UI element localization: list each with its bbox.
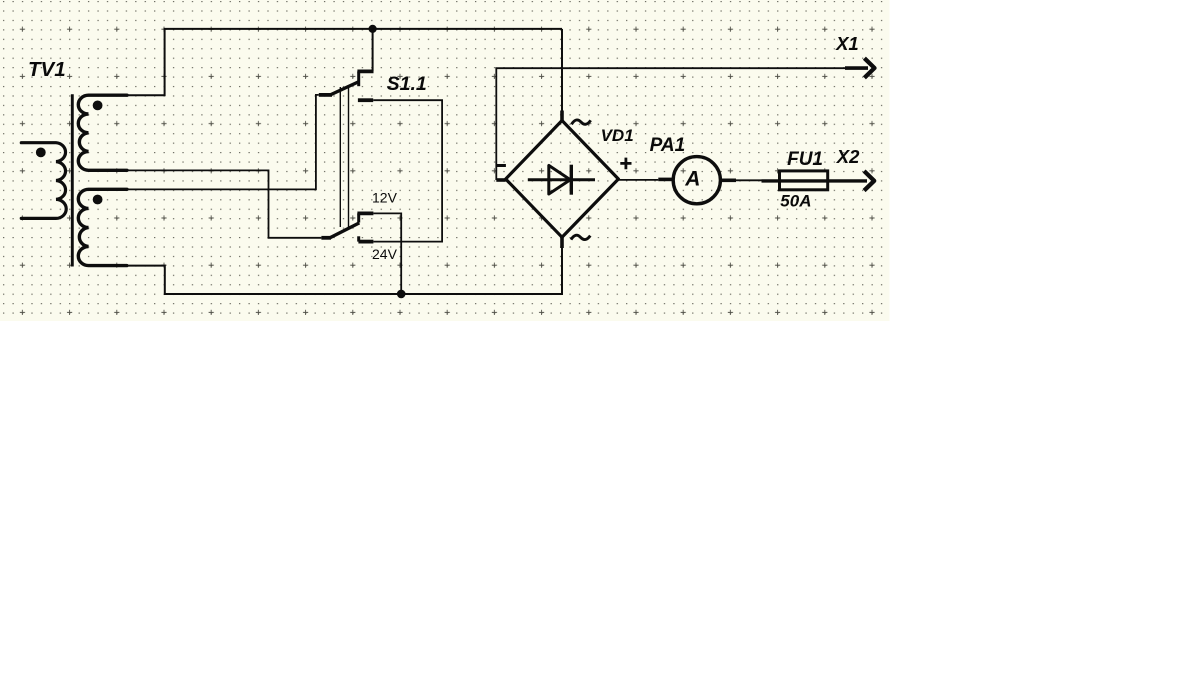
transformer TV1 core bbox=[71, 94, 74, 266]
TV1 secondary 1 polarity dot bbox=[93, 101, 103, 111]
switch S1.1 upper throw contact stub bbox=[357, 70, 373, 74]
ammeter left thick stub bbox=[658, 178, 673, 182]
switch S1.1 upper second contact stub bbox=[358, 98, 373, 102]
TV1 secondary winding 2 bbox=[78, 189, 127, 265]
wire: secondary1 bottom to lower pivot bbox=[127, 170, 321, 237]
svg-text:X2: X2 bbox=[836, 146, 860, 167]
wire: secondary1 top to top bus to bridge top bbox=[127, 29, 562, 95]
VD1 plus sign bbox=[620, 158, 631, 170]
switch S1.1 mechanical linkage lines bbox=[340, 87, 348, 227]
switch S1.1 lower bottom contact tick bbox=[357, 236, 360, 241]
wire thick stub at bridge bottom bbox=[560, 237, 564, 248]
wire: bridge top lead bbox=[561, 29, 563, 121]
svg-text:PA1: PA1 bbox=[650, 135, 686, 156]
wire: upper second contact to 24V contact (right loop) bbox=[373, 100, 442, 241]
TV1 secondary winding 1 bbox=[78, 95, 127, 170]
fuse FU1 body bbox=[780, 171, 828, 190]
svg-text:VD1: VD1 bbox=[601, 126, 634, 145]
switch S1.1 lower contact tick bbox=[357, 213, 360, 222]
bridge rectifier VD1 diamond bbox=[506, 121, 619, 238]
wire: junction down to switch contact bbox=[372, 29, 374, 71]
ammeter right thick stub bbox=[722, 179, 736, 183]
svg-text:12V: 12V bbox=[372, 190, 398, 206]
VD1 minus sign bbox=[496, 164, 506, 167]
VD1 diode anode line bbox=[528, 178, 595, 181]
wire: bridge right to ammeter bbox=[618, 179, 658, 181]
TV1 primary polarity dot bbox=[36, 148, 46, 158]
VD1 AC tilde top bbox=[572, 120, 591, 124]
svg-text:24V: 24V bbox=[372, 246, 398, 262]
wire inside fuse bbox=[779, 179, 830, 182]
svg-text:TV1: TV1 bbox=[28, 58, 66, 81]
schematic paper background bbox=[0, 0, 890, 321]
switch S1.1 lower lever bbox=[330, 223, 360, 238]
wire: ammeter to fuse bbox=[736, 179, 762, 181]
switch S1.1 upper lever bbox=[330, 82, 359, 96]
wire: bridge left vertex stub bbox=[496, 178, 505, 182]
wire thick stub at bridge top bbox=[560, 111, 564, 122]
svg-text:S1.1: S1.1 bbox=[387, 73, 427, 95]
ammeter PA1 circle bbox=[673, 157, 720, 204]
svg-text:A: A bbox=[684, 167, 700, 190]
svg-text:50A: 50A bbox=[780, 192, 811, 211]
wire: 12V contact down to bottom bus bbox=[373, 213, 401, 294]
X1 thick lead bbox=[845, 66, 868, 70]
svg-text:X1: X1 bbox=[835, 33, 859, 54]
TV1 secondary 2 polarity dot bbox=[93, 195, 103, 205]
switch S1.1 upper pivot stub bbox=[319, 93, 332, 97]
wire: secondary2 top to upper pivot bbox=[127, 95, 319, 189]
node junction top bbox=[369, 25, 377, 33]
VD1 diode cathode bar bbox=[570, 165, 573, 195]
wire: thick through fuse to X2 arrow bbox=[762, 179, 868, 182]
node junction bottom bbox=[397, 290, 406, 299]
X2 arrowhead bbox=[864, 171, 874, 191]
VD1 AC tilde bottom bbox=[571, 235, 590, 239]
X1 arrowhead bbox=[864, 58, 874, 78]
svg-text:FU1: FU1 bbox=[787, 149, 823, 170]
switch S1.1 lower contact stub 12V bbox=[357, 211, 373, 215]
wire: secondary2 bottom to bottom bus to bridge bottom bbox=[127, 237, 562, 294]
switch S1.1 lower pivot stub bbox=[321, 236, 331, 240]
switch S1.1 upper contact tick bbox=[357, 71, 360, 86]
wire: X1 output bbox=[496, 68, 846, 180]
TV1 primary winding bbox=[21, 143, 66, 219]
switch S1.1 lower bottom contact stub 24V bbox=[358, 240, 373, 244]
VD1 diode triangle bbox=[549, 165, 571, 194]
